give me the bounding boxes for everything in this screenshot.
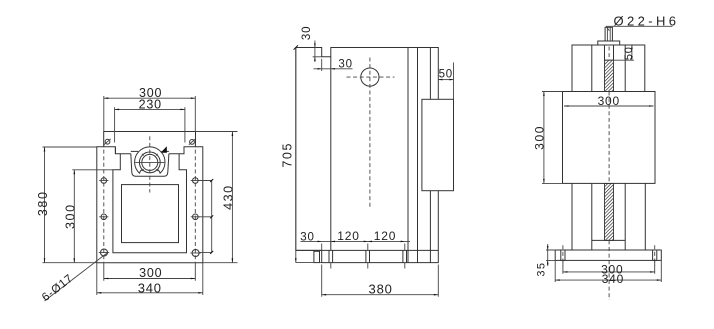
- svg-text:35: 35: [535, 262, 547, 277]
- base top line: [296, 249, 439, 251]
- vertical centerline upper: [608, 47, 610, 61]
- dim 300 top arrow right: [191, 97, 196, 99]
- top hole left slash: [104, 139, 110, 145]
- bearing horizontal centerline: [135, 161, 164, 163]
- svg-text:120: 120: [337, 229, 359, 243]
- internal edge line b: [417, 48, 419, 263]
- svg-text:50: 50: [439, 68, 453, 80]
- dim 380 arrow bottom: [44, 258, 46, 263]
- dim 300 top arrow left: [104, 97, 109, 99]
- dim 380 extension lines: [43, 147, 97, 263]
- chain dim line: [301, 240, 411, 242]
- dim 35 extension lines: [546, 250, 555, 260]
- stop key tab: [314, 251, 320, 262]
- dim 300 block width line: [564, 105, 654, 107]
- dim 300 height arrow top: [543, 92, 545, 97]
- dim 705 arrow bottom: [295, 258, 297, 263]
- base slot 3: [403, 250, 407, 262]
- dim 340 base arrow right: [657, 279, 662, 281]
- hole horizontal centerline: [347, 76, 395, 78]
- base slot 2: [366, 250, 370, 262]
- base slot 1: [329, 250, 333, 262]
- dim 300 height extension lines: [542, 92, 563, 184]
- bearing vertical centerline: [149, 136, 151, 192]
- dim 30 width arrow left: [318, 68, 322, 70]
- stub flange: [598, 41, 620, 45]
- lower column right edge: [644, 183, 646, 250]
- svg-text:230: 230: [139, 97, 162, 111]
- top hole left: [105, 139, 110, 144]
- svg-text:340: 340: [138, 280, 162, 295]
- dim 430 extension lines: [196, 132, 238, 263]
- upper column inner line right: [624, 45, 626, 92]
- window inner rectangle: [122, 185, 179, 243]
- dim 300 height line: [543, 92, 545, 184]
- dim 30 notch arrow top: [314, 43, 316, 47]
- side hole right upper tick: [191, 180, 200, 182]
- internal edge line a: [407, 48, 409, 263]
- svg-text:300: 300: [63, 203, 77, 229]
- dim 300 bottom line: [104, 278, 196, 280]
- dim 30 notch width extension: [321, 59, 323, 71]
- shaft stub bore lines: [607, 27, 610, 41]
- dim 380 arrow left: [322, 294, 327, 296]
- bolt centerline left: [562, 245, 564, 265]
- svg-text:300: 300: [139, 266, 162, 280]
- svg-text:30: 30: [300, 231, 314, 243]
- dim 50 screw line: [631, 45, 633, 60]
- dim 430 arrow top: [232, 132, 234, 137]
- dim 380 arrow right: [434, 294, 439, 296]
- hole pitch bracket tick 3: [210, 251, 213, 254]
- dim 50 screw arrow top: [631, 45, 633, 49]
- side hole right upper: [193, 178, 199, 184]
- bearing snap ring outer arc: [135, 147, 165, 174]
- leader line 6-d17: [45, 253, 107, 301]
- chain arrow at 120 mid b: [368, 241, 372, 243]
- dim 35 line: [547, 244, 549, 266]
- dim 705 arrow top: [294, 45, 298, 49]
- dim 705 line: [295, 48, 297, 263]
- label d22-H6 underline: [606, 25, 673, 27]
- dim 300 left arrow top: [74, 170, 76, 175]
- pocket lip left: [131, 150, 138, 152]
- dim 50 arrow right: [449, 79, 453, 81]
- screw bottom line: [592, 239, 625, 241]
- body outline side view: [296, 48, 439, 263]
- bearing inner circle: [142, 154, 158, 170]
- bottom hole right tick: [190, 252, 200, 254]
- screw hatched lower: [605, 183, 614, 240]
- wide block: [563, 92, 656, 184]
- chain arrow at 30 left: [318, 241, 322, 243]
- side hole right mid: [193, 214, 199, 220]
- dim 300 height arrow bottom: [543, 179, 545, 184]
- bearing ball tick NW: [142, 154, 144, 156]
- bearing pocket: [131, 154, 169, 177]
- dim 300 base arrow left: [563, 271, 568, 273]
- hole centerline right column: [194, 143, 196, 263]
- label d22-H6 leader: [606, 26, 609, 30]
- hole pitch bracket tick 1: [210, 179, 213, 182]
- dim 300 top line: [104, 97, 196, 99]
- slot centerline mark 1: [330, 263, 332, 269]
- dim 300 base line: [563, 271, 655, 273]
- body outline left view: [97, 132, 203, 263]
- dim 340 line: [97, 292, 203, 294]
- svg-text:380: 380: [36, 190, 50, 216]
- top hole right slash: [189, 139, 195, 145]
- window outer stepped opening: [113, 147, 187, 253]
- dim 230 arrow left: [115, 109, 120, 111]
- dim 35 arrow bottom: [547, 260, 549, 264]
- dim 340 extension lines: [97, 263, 203, 295]
- hole pitch bracket lines: [198, 181, 212, 253]
- dim 380 arrow top: [44, 147, 46, 152]
- dim 300 bottom extension lines: [104, 263, 196, 281]
- dim 50 screw arrow bottom: [631, 56, 633, 60]
- bottom hole left: [101, 249, 108, 256]
- base flange: [555, 250, 661, 260]
- side hole left upper tick: [99, 180, 108, 182]
- svg-text:300: 300: [598, 94, 620, 108]
- svg-text:430: 430: [222, 184, 236, 210]
- lower column left edge: [571, 183, 573, 250]
- dim 50 extension line: [453, 63, 455, 100]
- side hole left upper: [101, 178, 107, 184]
- bearing ball tick NE: [156, 154, 158, 156]
- dim 340 base extension lines: [555, 260, 661, 282]
- side hole left mid: [101, 214, 107, 220]
- svg-text:50: 50: [623, 46, 635, 60]
- side hole left mid tick: [99, 216, 108, 218]
- lower column inner right: [624, 183, 626, 250]
- chain arrow at 120 mid: [364, 241, 368, 243]
- dim 300 base extension lines: [563, 260, 655, 273]
- dim 30 notch depth extension: [313, 56, 322, 58]
- dim 705 bottom extension: [296, 262, 322, 264]
- chain arrow at 120 end: [401, 241, 405, 243]
- upper column outline: [572, 45, 645, 92]
- dim 300 base arrow right: [650, 271, 655, 273]
- dim 300 bottom arrow right: [191, 278, 196, 280]
- guide rail block: [422, 99, 454, 190]
- dim 340 arrow right: [198, 292, 203, 294]
- dim 430 line: [231, 132, 233, 263]
- dim 30 notch arrow bottom: [314, 57, 316, 61]
- surface mark filled triangle: [161, 146, 167, 153]
- dim 380 extension lines: [322, 265, 439, 297]
- dim 300 top extension lines: [104, 96, 196, 132]
- dim 230 arrow right: [180, 109, 185, 111]
- dim 300 bottom arrow left: [104, 278, 109, 280]
- screw hatched upper: [605, 60, 614, 91]
- dim 300 left line: [73, 170, 75, 263]
- dim 50 line: [438, 79, 453, 81]
- dim 230 line: [115, 108, 185, 110]
- svg-text:380: 380: [369, 282, 393, 297]
- vertical centerline block: [608, 92, 610, 184]
- internal edge line slot: [330, 57, 332, 251]
- dim 380 line: [322, 294, 439, 296]
- pocket lip right: [162, 150, 169, 152]
- slot centerline mark 3: [404, 263, 406, 269]
- dim 50 screw ext: [614, 59, 635, 61]
- dim 30 notch width line: [314, 68, 353, 70]
- side hole right mid tick: [191, 216, 200, 218]
- vertical centerline side view: [369, 58, 371, 208]
- bearing outer circle: [139, 152, 160, 173]
- bottom hole right: [192, 250, 199, 257]
- dim 30 width arrow right: [331, 68, 335, 70]
- svg-text:300: 300: [533, 125, 547, 150]
- screw bore walls: [605, 45, 614, 60]
- dim 430 arrow bottom: [232, 258, 234, 263]
- base bolt slot right: [653, 250, 657, 260]
- svg-text:705: 705: [281, 142, 295, 168]
- dim 300 left extension line: [72, 169, 113, 171]
- dim 340 arrow left: [97, 292, 102, 294]
- svg-text:340: 340: [602, 272, 624, 286]
- dim 300 block arrow left: [564, 105, 569, 107]
- base bolt slot left: [561, 250, 565, 260]
- slot centerline mark 2: [367, 263, 369, 269]
- hole pitch bracket tick 2: [210, 215, 213, 218]
- bottom hole left tick: [99, 252, 109, 254]
- dim 340 base arrow left: [555, 279, 560, 281]
- chain arrow at 30 right: [331, 241, 335, 243]
- svg-text:30: 30: [338, 58, 352, 70]
- shoulder step right: [169, 147, 196, 154]
- dim 230 extension lines: [115, 107, 185, 142]
- shaft stub: [605, 27, 612, 41]
- bolt centerline right: [654, 245, 656, 265]
- dim 300 block arrow right: [649, 105, 654, 107]
- lower column inner left: [591, 183, 593, 250]
- dim 340 base line: [555, 279, 661, 281]
- vertical centerline lower: [608, 240, 610, 300]
- dim 300 left arrow bottom: [74, 258, 76, 263]
- dim 30 notch depth line: [314, 41, 316, 63]
- screw top line: [605, 59, 614, 61]
- hole centerline left column: [103, 143, 105, 263]
- upper column inner line left: [591, 45, 593, 92]
- bearing ball tick SE: [156, 169, 158, 171]
- hole circle side view: [361, 68, 379, 86]
- internal edge line c: [429, 48, 431, 263]
- chain dim extension lines: [322, 244, 405, 251]
- svg-text:120: 120: [374, 229, 396, 243]
- svg-text:30: 30: [301, 26, 313, 40]
- dim 50 arrow left: [438, 79, 442, 81]
- shoulder step left: [104, 147, 131, 154]
- dim 380 line: [44, 147, 46, 263]
- dim 35 arrow top: [547, 246, 549, 250]
- top hole right: [190, 140, 195, 145]
- bearing ball tick SW: [142, 169, 144, 171]
